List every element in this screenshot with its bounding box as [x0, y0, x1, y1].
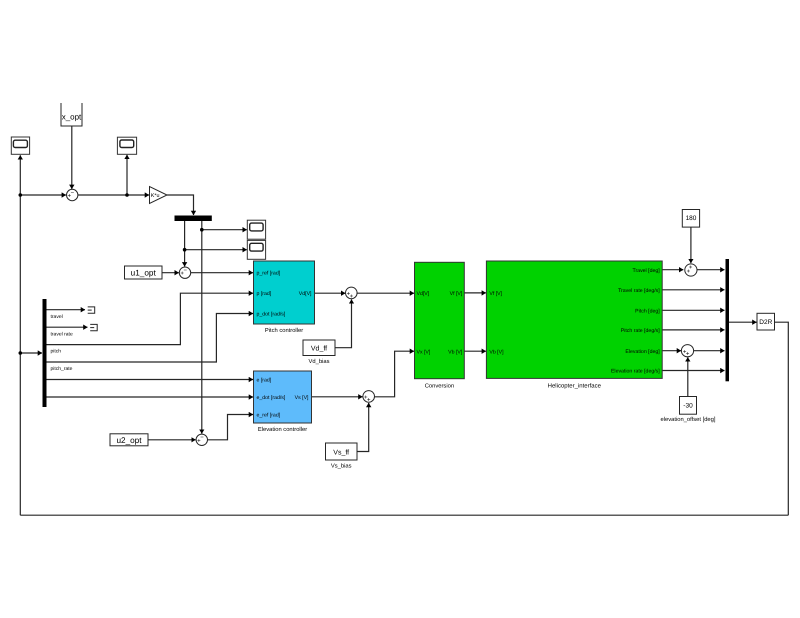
wire feedback to demux2 input: [20, 352, 42, 354]
svg-text:Vs [V]: Vs [V]: [295, 395, 309, 401]
subsystem Helicopter_interface: [486, 261, 662, 389]
demux1 (horizontal bar): [175, 216, 212, 222]
svg-text:Vs_bias: Vs_bias: [331, 463, 352, 470]
svg-text:Travel rate [deg/s]: Travel rate [deg/s]: [618, 288, 660, 294]
wire e_dot to Elevation controller: [47, 396, 254, 398]
svg-text:travel: travel: [51, 314, 63, 320]
constant u1_opt: [125, 266, 163, 279]
sum Vd: [346, 287, 358, 300]
subsystem Conversion: [415, 262, 465, 389]
demux2 (left vertical bar): [43, 299, 47, 407]
svg-text:Vf [V]: Vf [V]: [450, 291, 463, 297]
svg-text:e_dot [rad/s]: e_dot [rad/s]: [257, 395, 286, 401]
svg-text:p_ref [rad]: p_ref [rad]: [257, 271, 281, 277]
svg-text:elevation_offset [deg]: elevation_offset [deg]: [660, 416, 715, 423]
wire feedback left vertical (D2R output up to Scope1): [19, 155, 21, 515]
svg-text:180: 180: [686, 215, 697, 222]
svg-text:e [rad]: e [rad]: [257, 378, 272, 384]
svg-text:Vb [V]: Vb [V]: [448, 349, 463, 355]
svg-text:Helicopter_interface: Helicopter_interface: [548, 382, 602, 389]
junction scope2 branch: [125, 193, 129, 197]
svg-text:Vb [V]: Vb [V]: [489, 349, 504, 355]
wire travel to tag1: [47, 309, 86, 311]
wire Elevation out to sum E left: [662, 350, 681, 352]
wire pitch_rate to p_dot port: [47, 314, 254, 363]
subsystem Pitch controller: [254, 261, 315, 334]
wire Pitch rate to mux: [662, 329, 724, 331]
svg-text:+: +: [197, 438, 201, 444]
wire Vs out to sum Vs: [312, 396, 363, 398]
wire feedback to sum A left input: [20, 194, 66, 196]
svg-text:D2R: D2R: [759, 319, 772, 326]
svg-text:Elevation controller: Elevation controller: [258, 426, 307, 433]
wire feedback right vertical from D2R: [775, 322, 789, 515]
svg-text:Vd[V]: Vd[V]: [417, 291, 430, 297]
wire Vs_ff up to sum Vs bottom: [357, 403, 369, 452]
wire x_opt down to sum A top: [71, 126, 73, 189]
svg-text:Pitch controller: Pitch controller: [265, 327, 303, 334]
wire travel rate to tag2: [47, 326, 88, 328]
gain K*u: [150, 187, 168, 204]
svg-text:Vx [V]: Vx [V]: [417, 349, 431, 355]
scope Scope3: [247, 220, 265, 239]
constant Vs_ff: [326, 443, 358, 470]
svg-text:Vd[V]: Vd[V]: [299, 291, 312, 297]
wire Vd out to sum Vd: [315, 292, 346, 294]
svg-text:+: +: [687, 269, 691, 275]
constant Vd_ff: [303, 340, 335, 365]
junction scope3 branch: [200, 228, 204, 232]
wire sum U2 to e_ref port: [208, 415, 254, 440]
sum T (travel offset): [685, 264, 697, 276]
svg-text:Conversion: Conversion: [425, 382, 454, 389]
svg-text:+: +: [367, 397, 371, 403]
wire pitch to p port: [47, 293, 254, 344]
wire u2_opt to sum U2 left: [148, 439, 196, 441]
wire sum E to mux: [694, 350, 725, 352]
junction scope4 branch: [183, 248, 187, 252]
wire mux to D2R: [729, 321, 757, 323]
tag travel: [88, 307, 95, 313]
svg-text:x_opt: x_opt: [62, 113, 82, 122]
wire branch to Scope3: [202, 229, 247, 231]
sum A (x_opt feedback): [67, 189, 78, 200]
constant u2_opt: [110, 434, 148, 446]
svg-text:Vs_ff: Vs_ff: [333, 448, 349, 456]
wire sum Vd to Conversion Vd port: [357, 292, 414, 294]
wire -30 up to sum E bottom: [687, 357, 689, 396]
mux (right vertical bar): [726, 259, 730, 381]
svg-text:Vd_ff: Vd_ff: [311, 344, 327, 352]
wire u1_opt to sum U1 left: [162, 272, 179, 274]
junction feedback/sum A: [19, 193, 23, 197]
svg-text:Vf [V]: Vf [V]: [489, 291, 502, 297]
sum U1: [179, 267, 190, 278]
sum Vs: [363, 391, 375, 404]
wire sum U1 to p_ref port: [191, 272, 253, 274]
sum U2: [196, 434, 207, 445]
constant 180: [682, 210, 699, 228]
svg-text:Travel [deg]: Travel [deg]: [632, 268, 660, 274]
svg-text:+: +: [350, 294, 354, 300]
svg-text:e_ref [rad]: e_ref [rad]: [257, 413, 281, 419]
gain D2R: [757, 313, 775, 330]
svg-text:+: +: [68, 194, 72, 200]
svg-text:K*u: K*u: [151, 193, 160, 199]
junction feedback/demux2: [19, 351, 23, 355]
wire Travel rate to mux: [662, 289, 724, 291]
wire Pitch to mux: [662, 309, 724, 311]
svg-text:pitch: pitch: [51, 349, 62, 355]
wire sum A output to gain: [78, 194, 149, 196]
svg-text:−: −: [71, 190, 75, 196]
svg-text:travel rate: travel rate: [51, 332, 73, 338]
tag travel rate: [90, 324, 97, 330]
svg-text:-30: -30: [683, 403, 693, 410]
wire Travel out to sum T left: [662, 269, 683, 271]
wire Vd_ff up to sum Vd bottom: [335, 299, 352, 347]
wire Vb to Helicopter_interface: [464, 350, 486, 352]
scope Scope2: [117, 137, 136, 154]
svg-text:Pitch [deg]: Pitch [deg]: [635, 309, 660, 315]
svg-text:−: −: [183, 268, 187, 274]
constant -30: [660, 397, 715, 423]
svg-text:+: +: [180, 271, 184, 277]
wire sum T to mux: [697, 269, 725, 271]
svg-text:Pitch rate [deg/s]: Pitch rate [deg/s]: [621, 328, 660, 334]
svg-text:−: −: [200, 435, 204, 441]
svg-text:p [rad]: p [rad]: [257, 291, 272, 297]
wire 180 down to sum T top: [690, 227, 692, 263]
svg-text:Elevation rate [deg/s]: Elevation rate [deg/s]: [611, 369, 660, 375]
svg-text:pitch_rate: pitch_rate: [51, 366, 73, 372]
scope Scope1: [11, 137, 29, 154]
wire sum Vs to Conversion Vx port: [374, 351, 414, 397]
svg-text:u2_opt: u2_opt: [116, 436, 142, 445]
wire Elevation rate to mux: [662, 370, 724, 372]
wire branch to Scope4: [185, 249, 247, 251]
wire demux1 out A down to sum U1 top: [184, 221, 186, 266]
svg-text:p_dot [rad/s]: p_dot [rad/s]: [257, 312, 286, 318]
wire branch up to Scope2: [126, 155, 128, 195]
svg-text:Vd_bias: Vd_bias: [309, 358, 330, 365]
wire gain output to demux1 top: [167, 195, 194, 215]
sum E (elevation offset): [681, 345, 693, 358]
svg-text:u1_opt: u1_opt: [131, 269, 157, 278]
wire e to Elevation controller: [47, 379, 254, 381]
from-workspace x_opt: [61, 103, 82, 126]
svg-text:+: +: [686, 352, 690, 358]
wire feedback bottom horizontal: [20, 514, 788, 516]
wire demux1 out B down to sum U2 top: [201, 221, 203, 434]
svg-text:Elevation [deg]: Elevation [deg]: [625, 349, 660, 355]
subsystem Elevation controller: [254, 371, 312, 433]
wire Vf to Helicopter_interface: [464, 292, 486, 294]
scope Scope4: [247, 240, 265, 259]
